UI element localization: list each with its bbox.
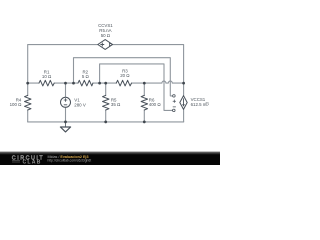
svg-text:20 Ω: 20 Ω <box>120 73 130 78</box>
svg-text:5 Ω: 5 Ω <box>82 74 90 79</box>
svg-text:35 Ω: 35 Ω <box>111 102 121 107</box>
port + terminal <box>173 95 176 103</box>
wire right rail upper: CCVS1 right lead down to VCCS1 top <box>113 45 184 96</box>
voltage source V1 <box>61 97 71 107</box>
wire R5 bottom lead <box>105 110 107 122</box>
label R4 value <box>10 97 23 107</box>
labels <box>10 23 209 107</box>
dependent source CCVS1 <box>98 40 113 50</box>
svg-text:50 Ω: 50 Ω <box>101 33 111 38</box>
wire left rail lower segment below R4 <box>27 110 29 122</box>
watermark bar <box>0 151 220 155</box>
wire right rail lower: VCCS1 bottom lead <box>183 110 185 122</box>
port - terminal <box>173 107 176 112</box>
wire top-left loop: CCVS1 left lead + left rail <box>28 45 98 96</box>
resistor R2 <box>78 80 93 86</box>
resistor R6 <box>141 95 148 110</box>
wire V1 top lead <box>65 83 67 97</box>
resistor R1 <box>39 80 54 86</box>
resistor R3 <box>116 80 131 86</box>
svg-text:100 Ω: 100 Ω <box>10 102 23 107</box>
node A junction dots on middle row <box>26 82 185 85</box>
dependent source VCCS1 <box>180 96 187 110</box>
svg-text:280 V: 280 V <box>74 102 86 107</box>
logo CircuitLab <box>12 155 44 165</box>
wire R6 bottom lead <box>143 110 145 122</box>
svg-text:10 Ω: 10 Ω <box>42 74 52 79</box>
label R1 value <box>42 70 52 80</box>
wire bottom rail <box>28 121 184 123</box>
label R3 value <box>120 68 130 78</box>
svg-text:612.5 m: 612.5 m <box>191 102 207 107</box>
wire R6 top lead <box>143 83 145 95</box>
wire R5 top lead <box>105 83 107 95</box>
wire middle row segment 4 with hops over port drops <box>132 81 184 83</box>
wire C: node to port - terminal <box>100 64 173 111</box>
wire middle row segment 3 <box>93 82 116 84</box>
resistor R5 <box>103 95 110 110</box>
label R2 value <box>82 70 90 80</box>
resistor R4 <box>25 95 32 110</box>
svg-text:CLAB: CLAB <box>23 160 42 166</box>
svg-text:400 Ω: 400 Ω <box>149 102 162 107</box>
node junction dots on bottom rail <box>64 121 146 124</box>
ground <box>60 122 70 132</box>
wire middle row segment 1 <box>28 82 39 84</box>
wire V1 bottom lead <box>65 107 67 122</box>
wire B: node to port + terminal <box>74 58 173 96</box>
label CCVS1 value <box>98 23 113 38</box>
wire middle row segment 2 <box>54 82 78 84</box>
svg-text:http://circuitlab.com/c6zt3gh6: http://circuitlab.com/c6zt3gh6t <box>48 159 92 163</box>
